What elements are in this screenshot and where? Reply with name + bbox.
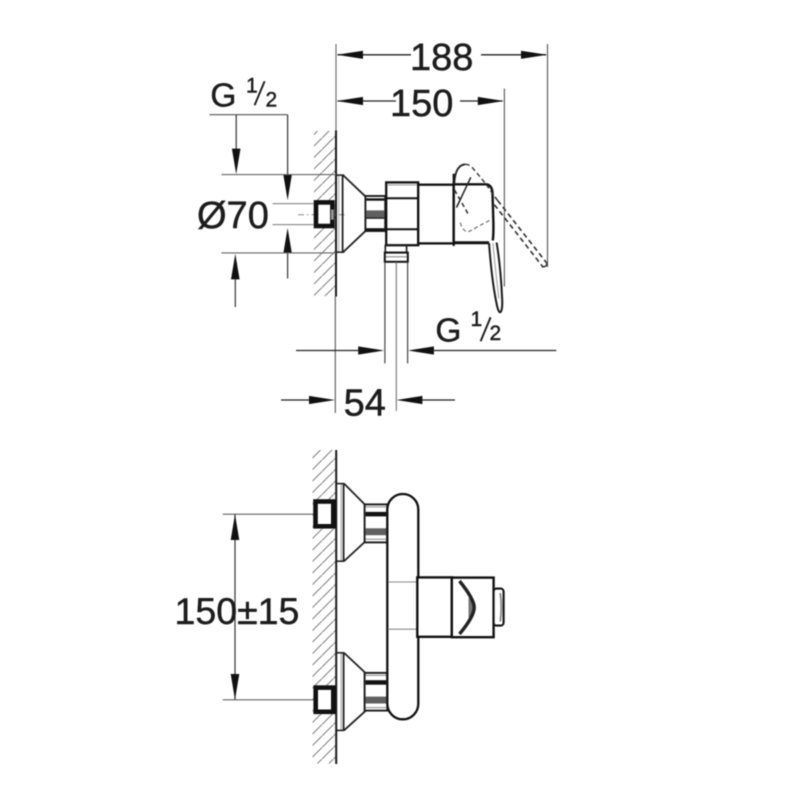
svg-text:188: 188 <box>410 37 473 79</box>
svg-text:G: G <box>210 77 236 114</box>
svg-text:150±15: 150±15 <box>175 590 300 632</box>
svg-text:1: 1 <box>471 308 483 331</box>
svg-text:2: 2 <box>266 89 278 112</box>
svg-text:2: 2 <box>490 322 502 345</box>
svg-text:G: G <box>435 313 461 350</box>
svg-text:54: 54 <box>344 382 386 424</box>
svg-text:150: 150 <box>390 83 453 125</box>
svg-text:Ø70: Ø70 <box>197 195 269 237</box>
svg-text:1: 1 <box>246 75 258 98</box>
